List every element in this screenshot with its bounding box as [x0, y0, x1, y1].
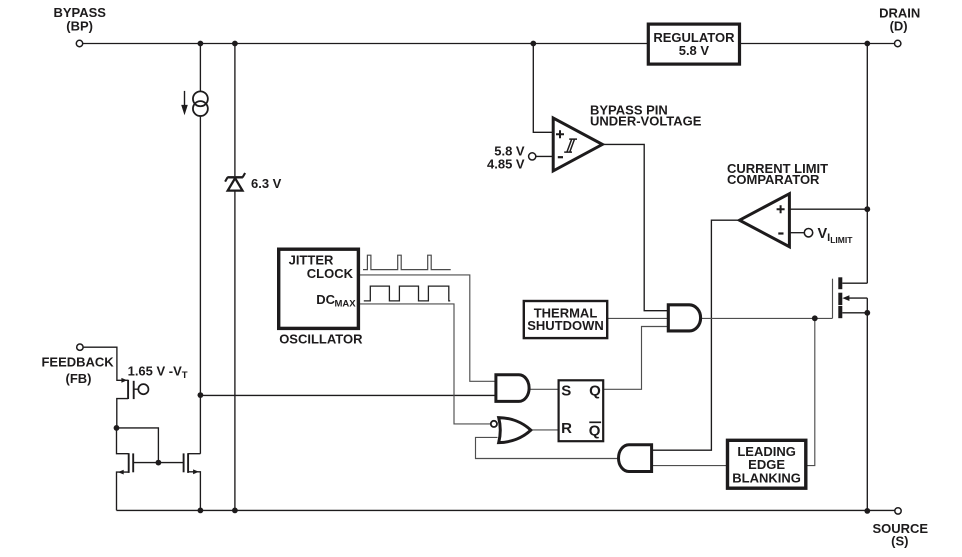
- svg-text:DC: DC: [316, 292, 335, 307]
- svg-text:S: S: [561, 383, 571, 400]
- mirror FET right bars: [183, 453, 185, 472]
- wire drain vertical: [866, 44, 868, 284]
- wire set AND to latch S: [529, 388, 559, 390]
- svg-text:BLANKING: BLANKING: [732, 470, 801, 485]
- svg-text:4.85 V: 4.85 V: [487, 156, 525, 171]
- wire UV comparator minus input stub: [536, 155, 553, 157]
- FB sense FET source arrow: [121, 378, 127, 383]
- svg-text:(D): (D): [890, 19, 908, 34]
- FB sense FET bars: [127, 380, 129, 399]
- svg-text:R: R: [561, 420, 572, 437]
- svg-text:FEEDBACK: FEEDBACK: [41, 354, 114, 369]
- svg-text:UNDER-VOLTAGE: UNDER-VOLTAGE: [590, 114, 702, 129]
- wire UV comparator output to AND gate: [602, 144, 668, 310]
- power MOSFET substrate arrow: [849, 297, 868, 299]
- svg-text:SHUTDOWN: SHUTDOWN: [527, 318, 604, 333]
- current source arrow: [184, 91, 186, 107]
- zener diode 6.3V cathode bar: [227, 176, 243, 178]
- thermal shutdown box: [524, 301, 607, 338]
- wire gate node down to LEB input: [806, 318, 815, 465]
- wire mirror gates link: [133, 462, 183, 464]
- DCmax waveform: [364, 286, 450, 301]
- wire CL comparator output to blanking AND: [652, 220, 740, 450]
- terminal SOURCE: [895, 508, 901, 514]
- op-amp CL comparator: [740, 194, 790, 247]
- CL comparator plus sign: [777, 205, 785, 213]
- mirror FET left bars: [128, 453, 130, 473]
- AND gate U1 (main 3-input): [668, 305, 700, 331]
- wire sense FET drain down: [117, 399, 128, 428]
- FB sense FET gate lead: [134, 388, 139, 390]
- zener diode triangle: [228, 178, 243, 190]
- svg-text:Q: Q: [589, 422, 601, 439]
- svg-text:(S): (S): [891, 533, 908, 548]
- wire AND output gate drive: [701, 317, 833, 319]
- wire CL comparator minus input stub: [789, 232, 804, 234]
- svg-text:MAX: MAX: [335, 298, 357, 309]
- svg-text:Q: Q: [589, 382, 601, 399]
- AND gate U3 (blanking, mirrored): [619, 445, 652, 472]
- terminal FEEDBACK: [77, 344, 83, 350]
- wire UV comparator plus input from rail: [533, 44, 553, 133]
- UV threshold stub circle: [529, 153, 536, 160]
- op-amp UV comparator: [553, 118, 602, 171]
- wire zener branch lower: [234, 191, 236, 511]
- wire blanking AND to OR input: [476, 437, 619, 458]
- wire source vertical: [866, 298, 868, 511]
- OR gate U4 (reset): [499, 418, 531, 443]
- latch Qbar overline: [589, 421, 601, 423]
- terminal BYPASS: [76, 40, 82, 46]
- wire FB node to left mirror drain: [117, 428, 129, 454]
- wire MOSFET gate lead: [832, 279, 834, 319]
- svg-text:1.65 V -VT: 1.65 V -VT: [128, 364, 188, 382]
- svg-text:CLOCK: CLOCK: [307, 266, 354, 281]
- power MOSFET source tap: [842, 312, 867, 314]
- regulator box: [648, 24, 739, 64]
- wire OR to latch R: [531, 429, 559, 431]
- UV comparator plus sign: [556, 130, 564, 138]
- svg-text:OSCILLATOR: OSCILLATOR: [279, 331, 363, 346]
- Vilimit stub circle: [804, 229, 812, 237]
- svg-text:COMPARATOR: COMPARATOR: [727, 172, 820, 187]
- clock waveform: [363, 255, 451, 269]
- wire current source down to mirror drain: [199, 116, 201, 454]
- wire CL comparator plus input: [789, 208, 867, 210]
- svg-text:(FB): (FB): [66, 371, 92, 386]
- svg-text:BYPASS: BYPASS: [53, 5, 106, 20]
- wire latch Q to AND gate: [603, 327, 668, 390]
- wire thermal shutdown to AND: [607, 317, 668, 319]
- wire FB sense line to set AND: [200, 394, 496, 396]
- SR latch box: [559, 380, 604, 441]
- wire BP node to current source: [199, 44, 201, 92]
- zener diode tails: [225, 173, 245, 182]
- UV comparator minus sign: [558, 156, 563, 158]
- wire FB terminal to sense FET: [83, 347, 128, 380]
- svg-text:(BP): (BP): [66, 19, 93, 34]
- wire FB node to mirror gates: [117, 428, 159, 463]
- leading edge blanking box: [728, 440, 806, 488]
- wire zener branch upper: [234, 44, 236, 177]
- power MOSFET channel bars: [838, 277, 842, 289]
- terminal DRAIN: [895, 40, 901, 46]
- wire clock output to set AND: [358, 275, 496, 381]
- wire LEB output to blanking AND: [652, 465, 728, 467]
- OR gate input bubble: [491, 421, 497, 427]
- wire DCmax output to OR bubble: [358, 304, 491, 424]
- svg-text:5.8 V: 5.8 V: [679, 43, 710, 58]
- AND gate U2 (set): [496, 375, 529, 402]
- mirror FET left source arrow: [118, 470, 124, 475]
- oscillator box: [279, 249, 359, 328]
- UV comparator hysteresis symbol: [564, 139, 577, 152]
- FB gate circle: [138, 384, 148, 394]
- CL comparator minus sign: [778, 232, 783, 234]
- power MOSFET drain tap: [842, 282, 867, 284]
- svg-text:6.3 V: 6.3 V: [251, 176, 282, 191]
- wire left mirror source to rail: [117, 472, 129, 510]
- wire bottom rail: [117, 509, 895, 511]
- mirror FET right source arrow: [193, 469, 199, 474]
- wire right mirror drain: [188, 453, 200, 455]
- svg-text:VILIMIT: VILIMIT: [818, 226, 854, 245]
- wire top rail BP to DRAIN: [83, 43, 895, 45]
- wire right mirror source to rail: [188, 472, 200, 511]
- current source circles: [193, 91, 208, 106]
